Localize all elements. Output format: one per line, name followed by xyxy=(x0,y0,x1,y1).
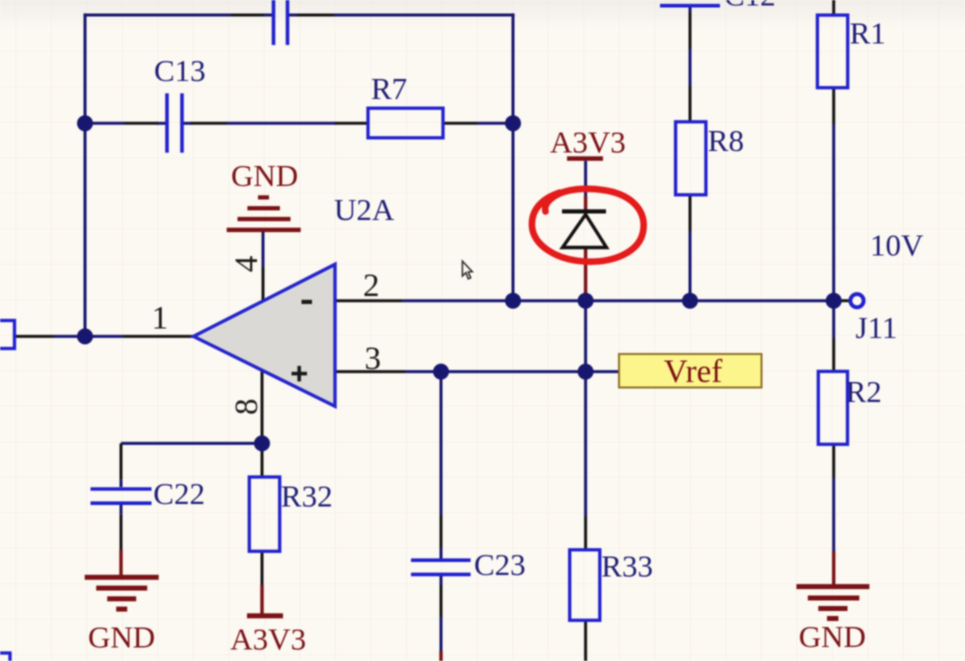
svg-text:GND: GND xyxy=(231,158,298,193)
svg-text:10V: 10V xyxy=(870,228,924,263)
svg-text:1: 1 xyxy=(152,300,169,336)
svg-text:3: 3 xyxy=(365,341,382,377)
svg-text:R1: R1 xyxy=(850,16,886,51)
svg-text:J11: J11 xyxy=(856,310,898,345)
svg-text:2: 2 xyxy=(363,268,380,304)
svg-text:R8: R8 xyxy=(708,123,744,158)
svg-text:C13: C13 xyxy=(154,53,206,88)
svg-text:C22: C22 xyxy=(153,476,205,511)
svg-text:R32: R32 xyxy=(281,479,333,514)
svg-text:Vref: Vref xyxy=(664,354,722,390)
svg-text:C12: C12 xyxy=(724,0,776,13)
svg-text:GND: GND xyxy=(799,619,866,654)
svg-text:A3V3: A3V3 xyxy=(230,622,306,657)
svg-text:U2A: U2A xyxy=(334,192,395,227)
svg-text:8: 8 xyxy=(229,399,265,416)
svg-text:R7: R7 xyxy=(371,71,407,106)
svg-text:R33: R33 xyxy=(601,549,653,584)
svg-text:4: 4 xyxy=(229,256,265,273)
svg-text:GND: GND xyxy=(88,620,155,655)
svg-text:A3V3: A3V3 xyxy=(550,124,626,159)
svg-text:R2: R2 xyxy=(846,374,882,409)
svg-text:C23: C23 xyxy=(474,547,526,582)
